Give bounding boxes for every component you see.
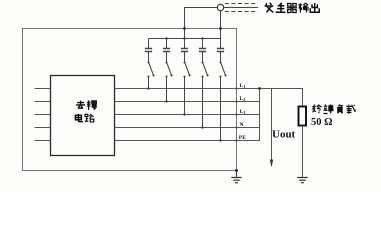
svg-text:50 Ω: 50 Ω [311, 117, 333, 128]
dashed callout lines to generator label [225, 3, 258, 5]
outer enclosure rectangle (coupling/decoupling network box) [23, 29, 237, 171]
wire: line L3 [115, 114, 261, 116]
ground (under load) [297, 178, 307, 183]
char 发 [265, 3, 274, 13]
wire [202, 77, 204, 128]
char 输 [298, 3, 308, 13]
junction [183, 113, 185, 115]
decoupling circuit box U1 [51, 76, 115, 156]
switch blade end contact [189, 74, 191, 76]
branch 3: capacitor C3 and switch S3 to line L3 [181, 49, 191, 116]
wire [148, 52, 150, 62]
switch bottom contact [219, 75, 221, 77]
switch blade [167, 63, 172, 75]
char 耦 [87, 100, 97, 110]
wire: line L1 from decoupling box to load corner [115, 88, 304, 90]
switch top contact [183, 61, 185, 63]
junction [201, 126, 203, 128]
char 生 [276, 3, 286, 12]
wire [184, 52, 186, 62]
char 路 [85, 114, 94, 122]
char 电 [75, 114, 83, 122]
char 负 [337, 105, 342, 114]
junction at bottom-right corner [235, 169, 238, 172]
resistor R1 (50 ohm terminal load) [299, 107, 307, 126]
junction dots on enclosure top edge [183, 27, 186, 30]
wire: right vertical bus joining line ends [259, 88, 261, 141]
capacitor plates [163, 49, 170, 52]
bus junction dots [165, 37, 167, 39]
Uout measuring arrow [271, 89, 273, 161]
switch blade end contact [153, 74, 155, 76]
svg-text:Uout: Uout [272, 129, 296, 141]
capacitor plates [217, 49, 224, 52]
branch 2: capacitor C2 and switch S2 to line L2 [163, 39, 173, 103]
node dots where lines cross enclosure right edge [235, 87, 237, 89]
char 载 [346, 105, 355, 114]
char 去 [76, 101, 85, 109]
wire [184, 77, 186, 115]
wire: left stub 2 [35, 101, 51, 103]
wire: enclosure bottom-right corner to ground [236, 171, 238, 178]
wire [166, 77, 168, 102]
switch blade end contact [225, 74, 227, 76]
capacitor plates [199, 49, 206, 52]
wire: load to ground [302, 126, 304, 178]
branch 4: capacitor C4 and switch S4 to line N [199, 39, 209, 129]
junction at right bus top [258, 87, 261, 90]
wire: left stub 5 [35, 140, 51, 142]
wire: left stub 4 [35, 127, 51, 129]
svg-text:L2: L2 [240, 96, 246, 102]
wire [148, 77, 150, 89]
wire [148, 39, 150, 49]
wire: line L2 [115, 101, 261, 103]
switch blade [203, 63, 208, 75]
char 端 [323, 104, 333, 113]
label: 终端负载 (terminal load) [312, 104, 355, 113]
label: 去耦 / 电路 (decoupling circuit) inside box [75, 100, 96, 121]
char 终 [312, 105, 321, 113]
wire: left stub 1 [35, 88, 51, 90]
wire [166, 52, 168, 62]
wire: line N [115, 127, 261, 129]
coupling bus [149, 38, 221, 40]
branch 5: capacitor C5 and switch S5 to line PE [217, 49, 227, 142]
junction [165, 100, 167, 102]
connector circle (generator output port) [217, 4, 223, 10]
svg-text:L3: L3 [240, 109, 246, 115]
wire: left stub 3 [35, 114, 51, 116]
capacitor plates [181, 49, 188, 52]
switch bottom contact [147, 75, 149, 77]
wire [220, 52, 222, 62]
switch blade [149, 63, 154, 75]
switch bottom contact [165, 75, 167, 77]
switch blade [221, 63, 226, 75]
branch 1: capacitor C1 and switch S1 to line L1 [145, 39, 155, 90]
label: 发生器输出 (generator output) [265, 3, 320, 13]
switch bottom contact [183, 75, 185, 77]
junction [219, 139, 221, 141]
switch top contact [147, 61, 149, 63]
svg-text:L1: L1 [240, 83, 246, 89]
switch top contact [219, 61, 221, 63]
wire [166, 39, 168, 49]
switch top contact [165, 61, 167, 63]
wire [220, 77, 222, 141]
ground (enclosure reference) [231, 178, 241, 183]
generator feed: vertical riser from bus up, over to connector [185, 8, 218, 49]
wire: line PE [115, 140, 261, 142]
wire [202, 52, 204, 62]
wire [202, 39, 204, 49]
wire: connector down through enclosure top to capacitor bus [220, 11, 222, 49]
char 器 [287, 3, 297, 12]
wire: down to terminal load R1 [302, 89, 304, 107]
switch top contact [201, 61, 203, 63]
junction [147, 87, 149, 89]
svg-text:N: N [240, 122, 244, 128]
switch bottom contact [201, 75, 203, 77]
switch blade end contact [171, 74, 173, 76]
svg-text:PE: PE [239, 135, 246, 141]
char 出 [310, 3, 319, 12]
capacitor plates [145, 49, 152, 52]
switch blade [185, 63, 190, 75]
switch blade end contact [207, 74, 209, 76]
